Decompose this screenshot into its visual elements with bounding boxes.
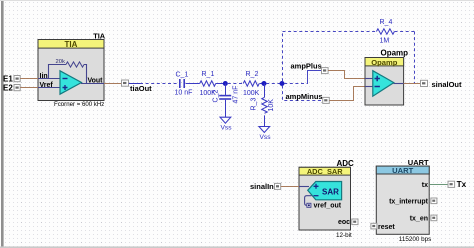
wire tiaOut solid stub bbox=[129, 83, 140, 85]
terminal sinalIn bbox=[275, 183, 281, 189]
wire: Iin stub bbox=[38, 78, 60, 80]
svg-text:ampMinus: ampMinus bbox=[286, 92, 323, 101]
wire R_1 to node1 bbox=[216, 83, 226, 85]
resistor R_1 bbox=[200, 81, 216, 86]
svg-text:tiaOut: tiaOut bbox=[130, 84, 152, 93]
svg-text:47 nF: 47 nF bbox=[233, 86, 240, 104]
wire E2 to Vref bbox=[20, 87, 38, 89]
terminal ampMinus bbox=[323, 97, 330, 103]
resistor R_4 bbox=[376, 29, 394, 34]
terminal tiaOut bbox=[122, 80, 129, 86]
svg-text:SAR: SAR bbox=[322, 188, 339, 197]
svg-text:C_1: C_1 bbox=[176, 72, 189, 79]
svg-text:Opamp: Opamp bbox=[371, 58, 398, 67]
svg-text:10K: 10K bbox=[268, 99, 275, 112]
wire vref loop bbox=[305, 196, 312, 206]
wire ampMinus to opamp - bbox=[329, 87, 365, 101]
wire node1 down to C_2 bbox=[225, 84, 227, 96]
wire node1 to R_2 (dashed) bbox=[228, 83, 243, 85]
UART block body bbox=[376, 166, 429, 234]
ground Vss (left) bbox=[220, 117, 231, 123]
svg-text:12-bit: 12-bit bbox=[336, 232, 352, 239]
wire: TIA feedback loop left leg bbox=[49, 65, 67, 79]
terminal tx_en bbox=[431, 215, 437, 221]
node 2 junction bbox=[262, 81, 267, 86]
wire up to ampPlus terminal bbox=[308, 71, 322, 84]
TIA title bar bbox=[38, 40, 104, 49]
svg-text:vref_out: vref_out bbox=[314, 202, 342, 209]
wire R_3 to Vss bbox=[264, 115, 266, 126]
svg-text:E1: E1 bbox=[3, 74, 13, 83]
svg-text:R_1: R_1 bbox=[202, 71, 215, 78]
svg-text:Vref: Vref bbox=[40, 82, 54, 89]
ground Vss (right) bbox=[259, 127, 270, 133]
wire sinalIn stub inside bbox=[299, 186, 309, 188]
svg-text:115200 bps: 115200 bps bbox=[399, 236, 431, 243]
svg-text:C_2: C_2 bbox=[213, 90, 220, 103]
Opamp title bar bbox=[365, 58, 404, 66]
wire node3 up (dashed) bbox=[282, 32, 284, 82]
svg-text:10 nF: 10 nF bbox=[175, 90, 193, 97]
SAR symbol bbox=[308, 182, 342, 200]
resistor R_2 bbox=[243, 81, 259, 86]
svg-text:tx_en: tx_en bbox=[410, 216, 428, 223]
op-amp (TIA) bbox=[60, 71, 82, 94]
wire sinalIn to ADC bbox=[281, 186, 299, 188]
svg-text:Vss: Vss bbox=[260, 134, 272, 141]
wire: Vref stub bbox=[38, 87, 60, 89]
svg-text:Iin: Iin bbox=[40, 73, 48, 80]
svg-text:sinalIn: sinalIn bbox=[250, 182, 274, 191]
svg-text:Tx: Tx bbox=[457, 180, 467, 189]
svg-text:1M: 1M bbox=[380, 38, 390, 45]
svg-text:Vout: Vout bbox=[87, 78, 103, 85]
svg-text:100K: 100K bbox=[243, 90, 260, 97]
svg-text:reset: reset bbox=[378, 224, 395, 231]
node 3 junction bbox=[280, 81, 285, 86]
wire down to output (dashed) bbox=[414, 32, 416, 84]
wire: Vout stub bbox=[81, 83, 104, 85]
wire - input stub bbox=[365, 86, 373, 88]
terminal tx_interrupt bbox=[431, 198, 437, 204]
resistor 20k (TIA feedback) bbox=[66, 62, 84, 67]
svg-text:R_4: R_4 bbox=[380, 19, 393, 26]
svg-text:Vss: Vss bbox=[221, 125, 233, 132]
svg-text:ADC_SAR: ADC_SAR bbox=[307, 167, 343, 176]
svg-text:UART: UART bbox=[392, 166, 413, 175]
Opamp block body bbox=[365, 58, 404, 106]
wire + input stub bbox=[365, 78, 373, 80]
svg-text:tx: tx bbox=[422, 182, 428, 189]
terminal reset bbox=[371, 223, 377, 229]
top window border line bbox=[0, 0, 474, 1]
UART title bar bbox=[376, 166, 429, 174]
wire tx to Tx bbox=[429, 184, 448, 186]
wire top horizontal to R_4 (dashed) bbox=[283, 31, 377, 33]
vref_out pin box bbox=[307, 203, 311, 207]
op-amp (Opamp) bbox=[373, 71, 394, 97]
ADC title bar bbox=[299, 167, 351, 175]
svg-text:tx_interrupt: tx_interrupt bbox=[389, 199, 429, 206]
wire E1 to Iin bbox=[20, 78, 38, 80]
resistor R_3 (vertical) bbox=[262, 97, 267, 113]
wire output to sinalOut bbox=[404, 83, 421, 85]
node 1 junction bbox=[223, 81, 228, 86]
wire Vout to tiaOut bbox=[104, 83, 122, 85]
terminal ampPlus bbox=[322, 68, 329, 74]
capacitor C_2 bbox=[219, 95, 231, 97]
terminal Tx bbox=[448, 181, 455, 187]
svg-text:Fcorner = 600 kHz: Fcorner = 600 kHz bbox=[54, 101, 104, 108]
wire C_2 to Vss bbox=[225, 100, 227, 117]
terminal eoc bbox=[352, 219, 358, 225]
svg-text:Opamp: Opamp bbox=[381, 49, 409, 58]
ADC block body bbox=[299, 167, 351, 230]
wire: TIA feedback loop right leg bbox=[81, 65, 87, 84]
svg-text:TIA: TIA bbox=[65, 40, 78, 49]
svg-text:ampPlus: ampPlus bbox=[291, 62, 322, 71]
wire output stub bbox=[394, 83, 404, 85]
wire R_2 to node2 bbox=[260, 83, 265, 85]
wire node3 to ampMinus (dashed) bbox=[283, 86, 323, 101]
wire ampPlus to opamp + bbox=[328, 71, 365, 79]
wire node2 to node3 (dashed) bbox=[266, 83, 282, 85]
svg-text:R_3: R_3 bbox=[251, 98, 258, 111]
svg-text:sinalOut: sinalOut bbox=[432, 80, 463, 89]
svg-text:eoc: eoc bbox=[338, 219, 350, 226]
wire node2 down to R_3 bbox=[264, 84, 266, 98]
TIA block body bbox=[38, 40, 104, 101]
terminal sinalOut bbox=[421, 80, 428, 86]
wire C_1 to R_1 bbox=[186, 83, 200, 85]
svg-text:R_2: R_2 bbox=[246, 71, 259, 78]
wire to C_1 (dashed) bbox=[140, 83, 179, 85]
wire R_4 to corner (dashed) bbox=[395, 31, 416, 33]
wire node3 to ampPlus corner (dashed) bbox=[284, 83, 308, 85]
svg-text:20k: 20k bbox=[56, 59, 65, 65]
left window border strip bbox=[1, 0, 4, 248]
bottom window border strip bbox=[0, 246, 474, 248]
svg-text:E2: E2 bbox=[3, 83, 13, 92]
capacitor C_1 bbox=[179, 79, 181, 88]
